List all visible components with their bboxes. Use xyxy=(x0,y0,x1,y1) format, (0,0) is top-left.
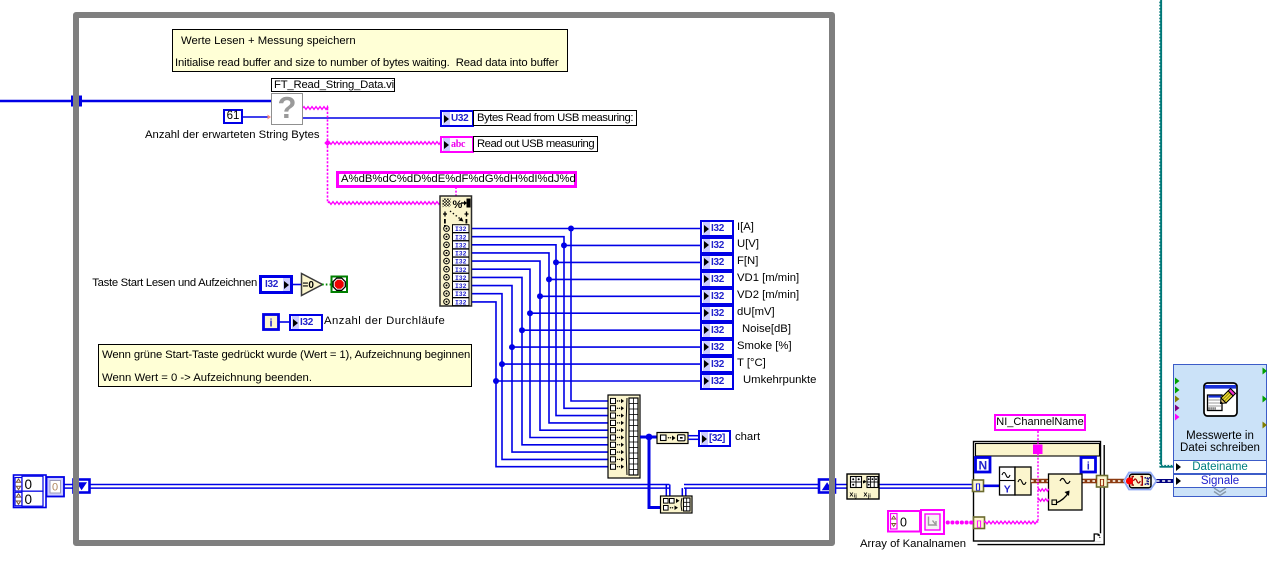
svg-text:0: 0 xyxy=(25,477,33,492)
array of channel names constant xyxy=(888,510,944,534)
NI_ChannelName constant xyxy=(994,414,1086,431)
2D array wire across while loop xyxy=(90,485,670,489)
wire scan output 1 to indicator I[A] and build-array xyxy=(469,226,701,402)
FT_Read_String_Data.vi icon xyxy=(271,93,303,125)
array-to-cluster node xyxy=(657,433,688,444)
stop button xyxy=(332,277,348,293)
label T [°C] xyxy=(737,357,766,369)
tunnel for loop right xyxy=(1097,476,1108,488)
2D array wire transpose to for loop xyxy=(879,485,974,489)
waveform wire to attribute node xyxy=(1031,479,1049,484)
string wire vertical in for loop xyxy=(1037,454,1039,523)
I32 indicator Noise[dB] xyxy=(700,322,734,339)
for loop page fold xyxy=(1094,533,1101,541)
wire input from left edge xyxy=(0,100,72,102)
string wire from FT_Read VI output xyxy=(303,107,328,110)
string wire lower tunnel xyxy=(984,521,1038,524)
wire scan output 5 to indicator VD2 [m/min] and build-array xyxy=(469,261,701,430)
array element box xyxy=(47,477,65,497)
wire i to indicator xyxy=(279,321,289,323)
scan-from-string node xyxy=(440,196,472,306)
file path wire from top xyxy=(1160,0,1175,467)
shift register right xyxy=(819,480,835,493)
2D array wire out of lower build-array xyxy=(682,488,686,496)
array wire to chart indicator xyxy=(688,436,699,440)
comment box start button xyxy=(98,344,472,387)
wire NI_ChannelName to terminal xyxy=(1037,431,1039,444)
for loop frame xyxy=(974,442,1101,542)
string wire stub to attribute node a xyxy=(1038,489,1049,491)
label VD1 [m/min] xyxy=(737,272,799,284)
label array of kanalnamen xyxy=(853,538,973,550)
2D array wire constant to shift register xyxy=(63,485,74,489)
transpose 2D array node xyxy=(847,474,879,500)
boolean wire to stop button xyxy=(322,284,332,286)
wire scan output 4 to indicator VD1 [m/min] and build-array xyxy=(469,253,701,423)
I32 indicator U[V] xyxy=(700,237,734,254)
I32 indicator I[A] xyxy=(700,220,734,237)
label anzahl durchlaeufe xyxy=(324,315,445,327)
svg-text:ji: ji xyxy=(867,494,871,500)
waveform wire to right tunnel xyxy=(1082,479,1097,484)
I32 indicator F[N] xyxy=(700,254,734,271)
wire scan output 2 to indicator U[V] and build-array xyxy=(469,237,701,409)
express VI input arrows xyxy=(1175,378,1180,421)
abc indicator xyxy=(440,136,474,153)
wire scan output 8 to indicator Smoke [%] and build-array xyxy=(469,286,701,453)
tunnel for loop left xyxy=(973,480,984,492)
FT_Read_String_Data.vi label xyxy=(271,78,395,92)
label anzahl string bytes xyxy=(145,129,320,141)
wire scan output 10 to indicator Umkehrpunkte and build-array xyxy=(469,302,701,467)
label Smoke [%] xyxy=(737,340,792,352)
label Noise[dB] xyxy=(742,323,791,335)
express VI input row Signale xyxy=(1173,474,1267,488)
i terminal in for loop xyxy=(1081,458,1096,473)
equals-zero node xyxy=(302,274,323,296)
2D array wire drop into lower build-array xyxy=(666,485,670,497)
for loop stacked frame xyxy=(978,445,1105,545)
string wire vertical segment xyxy=(327,108,329,203)
scan-from-string terminals xyxy=(444,225,469,307)
waveform wire tunnel to converter xyxy=(1108,479,1128,484)
wire tunnel to FT_Read VI xyxy=(82,100,272,102)
svg-text:x: x xyxy=(864,492,868,499)
for loop header bar xyxy=(976,444,1100,457)
wire scan output 6 to indicator dU[mV] and build-array xyxy=(469,269,701,437)
N count terminal xyxy=(976,458,991,473)
wire FT_Read VI to U32 indicator xyxy=(303,117,441,119)
label F[N] xyxy=(737,255,758,267)
wire 61 to FT_Read VI xyxy=(243,116,268,118)
I32 indicator dU[mV] xyxy=(700,305,734,322)
string wire to scan-from-string input xyxy=(328,202,440,205)
wire I32 control to equals-zero xyxy=(293,284,301,286)
express VI terminal arrows xyxy=(1176,463,1181,471)
build waveform node xyxy=(1000,467,1032,496)
label I[A] xyxy=(737,221,754,233)
label VD2 [m/min] xyxy=(737,289,799,301)
I32 control taste start xyxy=(259,275,293,294)
tunnel for loop lower left xyxy=(974,517,985,529)
string array wire beads xyxy=(943,521,974,525)
I32 indicator Smoke [%] xyxy=(700,339,734,356)
svg-text:[]: [] xyxy=(976,482,981,491)
convert to dynamic data node xyxy=(1124,473,1157,490)
wire scan output 7 to indicator Noise[dB] and build-array xyxy=(469,277,701,444)
label taste start xyxy=(90,277,257,289)
while loop xyxy=(73,12,835,546)
string wire stub to attribute node b xyxy=(1038,499,1049,501)
format string constant xyxy=(336,171,577,188)
svg-text:[]: [] xyxy=(977,519,982,528)
comment box read values xyxy=(172,29,568,72)
svg-text:0: 0 xyxy=(900,516,907,530)
express VI input row Dateiname xyxy=(1173,460,1267,474)
I32 indicator durchlaeufe xyxy=(289,314,323,331)
label dU[mV] xyxy=(737,306,775,318)
svg-text:0: 0 xyxy=(52,482,58,494)
I32 indicator Umkehrpunkte xyxy=(700,373,734,390)
lower build-array node xyxy=(661,496,693,513)
wire scan output 9 to indicator T [°C] and build-array xyxy=(469,294,701,460)
2D array constant xyxy=(14,475,47,508)
label U[V] xyxy=(737,238,759,250)
junction dot chart wire xyxy=(640,434,658,441)
U32 indicator xyxy=(440,110,474,127)
I32 indicator VD1 [m/min] xyxy=(700,271,734,288)
set waveform attribute node xyxy=(1049,474,1083,510)
wire build-array down to lower build-array xyxy=(649,437,661,508)
string wire format constant to scan node xyxy=(455,187,457,197)
2D array wire to right shift register xyxy=(684,485,819,489)
string wire to abc indicator xyxy=(328,142,441,145)
I32 indicator VD2 [m/min] xyxy=(700,288,734,305)
property terminal on header xyxy=(1033,445,1043,455)
svg-text:Y: Y xyxy=(1004,484,1011,496)
constant 61 xyxy=(223,109,243,124)
shift register left xyxy=(74,480,90,493)
label bytes read xyxy=(473,110,637,126)
tunnel on while-loop left border xyxy=(71,96,82,107)
label chart xyxy=(735,431,760,443)
label Umkehrpunkte xyxy=(743,374,816,386)
I32 indicator T [°C] xyxy=(700,356,734,373)
2D array wire shift register to transpose xyxy=(835,485,848,489)
coercion dot at FT_Read VI input xyxy=(268,115,272,120)
svg-text:[]: [] xyxy=(1100,478,1105,487)
wire scan output 3 to indicator F[N] and build-array xyxy=(469,245,701,416)
i iteration terminal xyxy=(264,315,279,330)
label read out usb xyxy=(473,136,598,152)
express VI output arrows xyxy=(1263,368,1268,429)
dynamic data wire to express VI xyxy=(1157,479,1175,483)
build-array node for chart xyxy=(608,395,640,478)
express VI icon xyxy=(1204,383,1237,416)
svg-text:i: i xyxy=(1087,460,1090,472)
svg-text:N: N xyxy=(978,459,987,473)
wire tunnel to build waveform xyxy=(984,484,1001,487)
svg-text:0: 0 xyxy=(25,492,33,507)
junction on string wire xyxy=(324,140,331,147)
express VI Messwerte in Datei schreiben xyxy=(1173,364,1267,497)
svg-text:x: x xyxy=(850,492,854,499)
express VI expand chevron xyxy=(1173,487,1267,497)
chart array indicator xyxy=(698,430,731,447)
